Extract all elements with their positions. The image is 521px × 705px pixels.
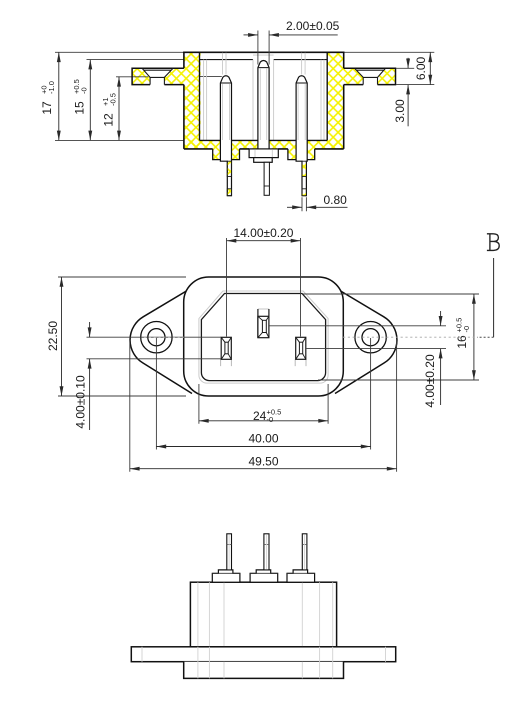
earth pin hole (light) [258, 309, 269, 338]
svg-text:-0.5: -0.5 [109, 93, 118, 106]
earth pin [258, 309, 269, 338]
svg-text:-1.0: -1.0 [47, 81, 56, 94]
dimension 15 +0.5/-0 [89, 60, 91, 141]
rear flange gray shading lines [142, 647, 386, 662]
left pin base [212, 570, 240, 582]
dimension 2.00±0.05 arrows [244, 34, 258, 36]
right countersink outline [355, 69, 385, 85]
dimension 0.80 arrows [287, 206, 302, 208]
dimension 24 +0.5/-0 ext lines [199, 384, 328, 424]
hatched left boss under floor [213, 149, 240, 160]
dimension 22.50 [61, 277, 63, 396]
dim ext line rim (15) [87, 59, 184, 61]
dimension 4.00±0.10 arrows [89, 322, 91, 337]
left countersink outline [142, 69, 172, 85]
svg-text:14.00±0.20: 14.00±0.20 [234, 226, 294, 240]
svg-text:4.00±0.20: 4.00±0.20 [423, 354, 437, 408]
center pin tail [264, 534, 269, 570]
dimension 24 +0.5/-0 [199, 420, 328, 422]
right boss outline [288, 149, 315, 160]
dimension 14.00±0.20 ext lines [227, 238, 301, 337]
svg-text:4.00±0.10: 4.00±0.10 [74, 375, 88, 429]
right pin base [287, 570, 315, 582]
right flange outline [344, 68, 396, 84]
recess opening outline [201, 294, 325, 381]
svg-text:6.00: 6.00 [414, 56, 428, 80]
right pin (sectional elevation) [296, 76, 307, 196]
hatched right boss under floor [288, 149, 315, 160]
rim band gray slot lines above side pins [223, 53, 306, 75]
svg-text:16: 16 [455, 335, 469, 349]
center boss step 1 [249, 149, 278, 158]
dimension 4.00±0.10 ext lines [87, 337, 222, 359]
left flange outline [132, 68, 184, 84]
left pin [221, 337, 231, 359]
svg-text:2.00±0.05: 2.00±0.05 [286, 19, 340, 33]
svg-text:-0: -0 [267, 415, 274, 424]
center pin (earth) [258, 61, 269, 149]
rim far-side inner line [200, 59, 328, 61]
center pin base [250, 570, 278, 582]
left pin tail [227, 534, 232, 570]
left pin (sectional elevation) [220, 76, 231, 196]
dimension 49.50 ext lines [130, 340, 397, 472]
dimension 12 +1/-0.5 [118, 77, 120, 141]
left wall outer edge [183, 52, 185, 149]
cavity gray shading lines [204, 60, 324, 141]
center pin tail [264, 162, 269, 195]
cavity floor top line [200, 139, 328, 141]
dimension 4.00±0.20 arrows [440, 311, 442, 326]
svg-text:12: 12 [102, 113, 116, 127]
left wall inner edge [199, 52, 201, 140]
right wing outline [318, 278, 397, 394]
rear lower block gray shading lines [198, 662, 333, 679]
rear body block [190, 582, 336, 647]
dimension 14.00±0.20 [227, 240, 301, 242]
right mounting hole inner [362, 329, 379, 346]
left boss outline [213, 149, 240, 160]
hatched left wall [184, 52, 201, 149]
dimension 4.00±0.20 ext lines [269, 326, 446, 349]
dimension 22.50 ext lines [58, 277, 186, 396]
centerline dotted through left hole [144, 336, 184, 338]
dimension 16 +0.5/-0 [473, 294, 475, 380]
right pin tail hatched upper part [302, 161, 306, 176]
rear flange bar [131, 647, 395, 662]
svg-text:22.50: 22.50 [46, 321, 60, 351]
svg-text:3.00: 3.00 [393, 99, 407, 123]
center boss step 2 [254, 158, 273, 163]
rear lower block [184, 662, 344, 679]
right pin tail bottom hatch [302, 189, 306, 196]
dimension 2.00±0.05 ext lines [258, 31, 269, 65]
svg-text:-0: -0 [462, 326, 471, 333]
recess gray offset contour [199, 291, 328, 383]
hatched right flange [344, 68, 396, 84]
left mounting hole inner [148, 329, 165, 346]
right pin hole (light) [295, 337, 306, 366]
right pin tail [302, 534, 307, 570]
right wall outer edge [343, 52, 345, 149]
svg-text:40.00: 40.00 [248, 432, 278, 446]
left wing outline [130, 278, 209, 394]
dimension 40.00 [156, 446, 370, 448]
center tail tick [264, 185, 269, 187]
right pin [296, 337, 306, 359]
dimension 6.00 [396, 84, 434, 86]
dimension 3.00 [396, 67, 414, 69]
dimension 0.80 ext lines [302, 197, 306, 211]
right wall inner edge [326, 52, 328, 140]
dimension 16 +0.5/-0 ext lines [303, 294, 479, 380]
right mounting hole outer [355, 322, 386, 353]
svg-text:-0: -0 [80, 87, 89, 94]
left pin hole (light) [221, 337, 232, 366]
body top edge [183, 51, 344, 53]
left mounting hole outer [141, 322, 172, 353]
svg-text:15: 15 [73, 101, 87, 115]
right flange countersink void [355, 68, 386, 84]
dim ext line countersink (12) [116, 75, 222, 77]
dim ext line floor bottom left (17/15/12) [55, 139, 184, 141]
dim ext line top left (17) [55, 51, 184, 53]
left pin tail bottom hatch [227, 189, 231, 196]
hatched right wall [327, 52, 344, 149]
svg-text:24: 24 [253, 409, 267, 423]
dimension 40.00 ext lines [156, 338, 370, 450]
svg-text:49.50: 49.50 [248, 454, 278, 468]
centerline dotted through right hole [343, 336, 477, 338]
svg-text:0.80: 0.80 [324, 193, 348, 207]
floor bottom line [184, 148, 344, 150]
svg-text:17: 17 [40, 101, 54, 115]
left pin tail hatched upper part [227, 161, 231, 176]
boss rounded rectangle [184, 277, 344, 396]
dim ext line top right (6.00) [344, 51, 435, 53]
section label B line [493, 258, 495, 337]
hatched floor band [184, 140, 344, 149]
dimension 17 +0/-1.0 [58, 52, 60, 140]
section label B text (single-stroke serif) [487, 234, 499, 251]
hatched left flange [132, 68, 184, 84]
earth channel far edge line [253, 54, 274, 56]
dimension 49.50 [130, 468, 397, 470]
rear body gray shading lines [198, 582, 333, 647]
left flange countersink void [142, 68, 173, 84]
